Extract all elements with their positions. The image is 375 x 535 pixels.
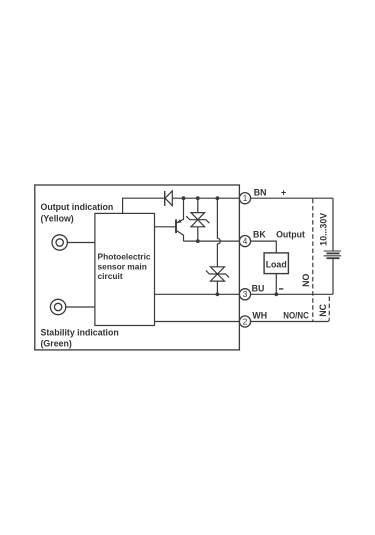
svg-text:3: 3 (243, 290, 248, 299)
svg-text:BU: BU (252, 284, 265, 294)
svg-text:Output indication: Output indication (41, 202, 114, 212)
svg-text:Output: Output (276, 230, 305, 240)
svg-text:sensor main: sensor main (98, 261, 147, 271)
svg-text:+: + (281, 187, 286, 197)
svg-text:10...30V: 10...30V (318, 213, 328, 246)
svg-text:NO/NC: NO/NC (283, 311, 309, 321)
svg-text:Stability indication: Stability indication (41, 328, 119, 338)
svg-text:NO: NO (301, 274, 311, 287)
svg-text:4: 4 (243, 237, 248, 246)
svg-text:(Yellow): (Yellow) (41, 214, 74, 224)
svg-text:Photoelectric: Photoelectric (98, 252, 151, 262)
svg-text:(Green): (Green) (41, 339, 72, 349)
svg-text:BK: BK (253, 230, 266, 240)
svg-text:1: 1 (243, 194, 248, 203)
svg-text:WH: WH (252, 311, 267, 321)
svg-text:Load: Load (266, 260, 287, 270)
svg-text:2: 2 (243, 317, 248, 326)
svg-text:circuit: circuit (98, 271, 123, 281)
svg-text:BN: BN (254, 187, 267, 197)
svg-text:NC: NC (318, 303, 328, 316)
